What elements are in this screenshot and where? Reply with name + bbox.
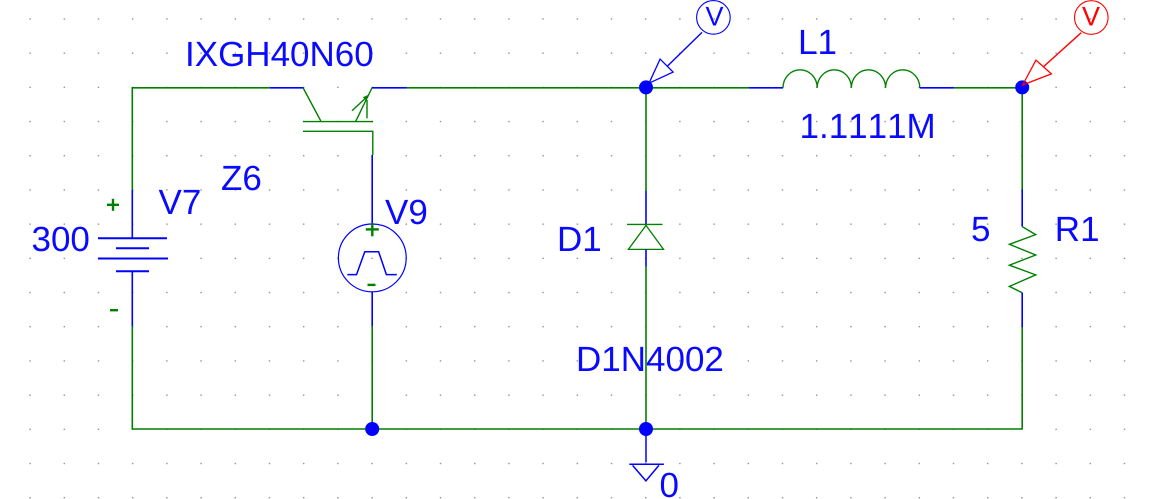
wire <box>1021 88 1023 190</box>
transistor Z6 (IGBT) <box>270 88 407 155</box>
svg-text:V: V <box>706 1 724 31</box>
voltage probe V (blue) <box>649 1 730 84</box>
svg-text:V7: V7 <box>159 183 202 222</box>
wire <box>645 267 647 430</box>
wire <box>1021 327 1023 429</box>
wire bottom rail <box>132 326 1022 429</box>
wire <box>371 326 373 429</box>
svg-text:R1: R1 <box>1055 210 1100 249</box>
inductor L1 <box>749 70 954 88</box>
wire <box>954 87 1022 89</box>
battery V7 <box>98 190 168 326</box>
wire <box>132 88 269 190</box>
svg-text:IXGH40N60: IXGH40N60 <box>185 35 374 74</box>
junction ground node <box>639 422 653 436</box>
junction V9 bottom node <box>365 422 379 436</box>
wire <box>645 88 647 191</box>
svg-text:D1: D1 <box>557 220 602 259</box>
junction switch node <box>639 80 653 94</box>
wire <box>407 87 646 89</box>
svg-text:5: 5 <box>971 210 990 249</box>
svg-text:Z6: Z6 <box>221 159 262 198</box>
voltage source V9 <box>338 155 406 326</box>
junction output node <box>1015 80 1029 94</box>
voltage probe V (red) <box>1023 1 1109 85</box>
svg-text:D1N4002: D1N4002 <box>576 340 724 379</box>
ground <box>629 429 664 481</box>
svg-text:V: V <box>1082 1 1100 31</box>
diode D1 <box>627 191 663 267</box>
svg-text:V9: V9 <box>385 193 428 232</box>
svg-text:1.1111M: 1.1111M <box>800 107 936 146</box>
svg-text:0: 0 <box>660 466 679 499</box>
wire <box>646 87 749 89</box>
svg-text:L1: L1 <box>798 23 837 62</box>
resistor R1 <box>1009 190 1035 328</box>
svg-text:300: 300 <box>32 220 90 259</box>
